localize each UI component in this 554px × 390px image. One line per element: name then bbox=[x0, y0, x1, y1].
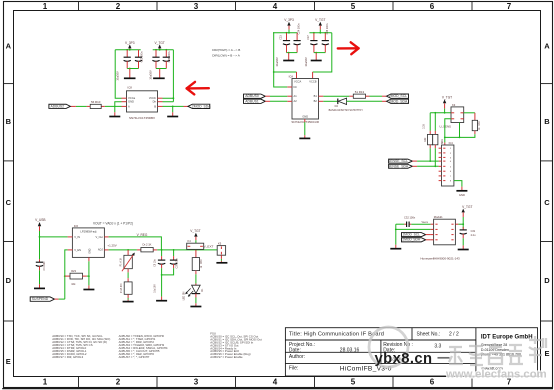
wire rail to connector top bbox=[444, 137, 446, 142]
svg-text:VOUT = VADJ x (1 + P1/P2): VOUT = VADJ x (1 + P1/P2) bbox=[93, 222, 133, 226]
svg-text:C24 100n: C24 100n bbox=[298, 23, 301, 34]
svg-text:SUSPEND: SUSPEND bbox=[32, 297, 49, 301]
svg-text:2: 2 bbox=[116, 378, 121, 387]
svg-text:2.2u: 2.2u bbox=[471, 234, 476, 237]
node B junction bbox=[172, 106, 174, 108]
node right rail VCCb bbox=[173, 97, 175, 99]
svg-text:Title: High Communication IF B: Title: High Communication IF Board bbox=[289, 332, 384, 338]
svg-text:C28 100n: C28 100n bbox=[326, 23, 329, 34]
svg-text:C4 100n: C4 100n bbox=[43, 261, 46, 271]
wire C31 to ground bbox=[462, 238, 464, 245]
ground group 1 bbox=[124, 69, 136, 79]
svg-text:E: E bbox=[6, 357, 11, 366]
pin stubs IC8 right bbox=[158, 98, 163, 106]
wire B1 to R13 bbox=[323, 95, 349, 97]
svg-text:V_TGT: V_TGT bbox=[462, 205, 472, 209]
svg-text:10u/16V: 10u/16V bbox=[276, 57, 279, 67]
svg-text:LP2985M-adj: LP2985M-adj bbox=[80, 230, 96, 234]
wire GND pin to ground bbox=[115, 102, 122, 113]
svg-text:GND: GND bbox=[459, 193, 465, 197]
svg-text:GND: GND bbox=[302, 115, 308, 119]
ground left riser bbox=[390, 245, 401, 249]
svg-text:GND: GND bbox=[128, 100, 134, 104]
wire B2 to D4 bbox=[323, 100, 337, 102]
svg-text:V_IN: V_IN bbox=[74, 235, 80, 239]
svg-text:C: C bbox=[6, 198, 12, 207]
svg-text:D: D bbox=[6, 276, 12, 285]
svg-text:C27: C27 bbox=[307, 35, 310, 40]
wire R13 to 2MOD_SCL bbox=[370, 95, 383, 97]
svg-text:C31: C31 bbox=[471, 230, 476, 233]
ground cap group A bbox=[283, 53, 294, 61]
wire V_USB to V_IN bbox=[40, 236, 68, 238]
net flag 2MOD_SDA module bbox=[402, 238, 431, 242]
net flag 2MOD_SDA bbox=[382, 99, 409, 103]
ground ICA bbox=[299, 135, 310, 138]
capacitor C31 bbox=[460, 227, 476, 238]
svg-text:IC6: IC6 bbox=[74, 224, 79, 228]
potentiometer P1-A bbox=[120, 250, 135, 273]
op-amp ICA box SN74LVC2T45 bbox=[289, 75, 319, 124]
svg-text:C23: C23 bbox=[280, 35, 283, 40]
capacitor C8 bbox=[155, 250, 166, 268]
ground C8 bbox=[156, 297, 167, 301]
frame column ticks bottom bbox=[79, 376, 473, 388]
note DIR text bbox=[212, 48, 240, 57]
pin stubs IC8 left bbox=[122, 98, 127, 106]
connector IC4 bbox=[439, 141, 454, 186]
svg-text:10u/16V: 10u/16V bbox=[305, 57, 308, 67]
resistor R13 bbox=[349, 90, 369, 98]
wire V_EN left and down bbox=[65, 250, 68, 299]
ground B net bbox=[167, 112, 178, 116]
ground IC6 bbox=[83, 285, 94, 289]
power V_3P3 bbox=[125, 41, 135, 50]
wire riser to C4 bbox=[39, 237, 41, 259]
annotation red arrow left bbox=[187, 82, 209, 95]
resistor R34 bbox=[472, 113, 481, 134]
svg-text:DIR(HIGH) = A --> B: DIR(HIGH) = A --> B bbox=[212, 48, 240, 52]
svg-text:V_TGT: V_TGT bbox=[315, 18, 325, 22]
svg-text:2MOD_SDA: 2MOD_SDA bbox=[402, 238, 420, 242]
svg-text:+1.25V: +1.25V bbox=[107, 244, 116, 248]
svg-text:A2: A2 bbox=[294, 99, 298, 103]
svg-text:BAS40-04/SOT23 SCHOTTKY: BAS40-04/SOT23 SCHOTTKY bbox=[329, 109, 364, 112]
svg-text:K4: K4 bbox=[188, 239, 192, 243]
wire ADBUS1 to A2 bbox=[270, 100, 287, 102]
notes column 2 ACBUS pin list bbox=[119, 334, 168, 359]
svg-text:1: 1 bbox=[43, 378, 48, 387]
ground cap group B bbox=[311, 53, 322, 61]
net flag 2MOD_SCL bbox=[382, 94, 409, 98]
ground P1 bbox=[123, 298, 134, 302]
wire V_TGT rail horizontal bbox=[430, 112, 451, 114]
svg-text:SENSE_SDA: SENSE_SDA bbox=[388, 164, 409, 168]
notes column 3 FSU pin list bbox=[210, 332, 262, 360]
svg-text:C35 100n: C35 100n bbox=[177, 258, 179, 269]
wire cap group 1 top bbox=[115, 49, 141, 51]
voltage regulator IC6 LP2985 bbox=[72, 224, 104, 258]
svg-text:10u/16V: 10u/16V bbox=[154, 284, 156, 293]
capacitor C27 bbox=[310, 33, 317, 53]
wire cap group 2 bottom bbox=[156, 68, 166, 70]
wire ADJ to P1 bbox=[109, 249, 137, 251]
ground LED bbox=[190, 303, 201, 306]
svg-text:Date:: Date: bbox=[289, 347, 301, 353]
svg-text:51 R13: 51 R13 bbox=[355, 90, 365, 94]
watermark chinese glyphs bbox=[449, 336, 546, 365]
svg-text:www.elecfans.com: www.elecfans.com bbox=[445, 369, 547, 381]
power V_TGT block2 bbox=[315, 18, 325, 33]
capacitor C25 bbox=[152, 50, 159, 69]
power V_TGT block5 bbox=[462, 205, 473, 229]
wire cap group 1 bottom bbox=[127, 68, 138, 70]
power V_TGT block3 bbox=[190, 229, 200, 243]
watermark elecfans.com bbox=[445, 369, 547, 381]
wire V_Out to rail bbox=[109, 237, 162, 250]
wire K3 bottom drop bbox=[459, 123, 461, 138]
svg-text:P1-B 470: P1-B 470 bbox=[121, 283, 123, 293]
svg-text:6: 6 bbox=[430, 2, 435, 11]
pin stub VCCA top bbox=[296, 72, 298, 79]
wire B junction down bbox=[172, 106, 174, 112]
node group 1 bottom bbox=[129, 68, 131, 70]
svg-text:Modul1: Modul1 bbox=[434, 215, 443, 219]
svg-text:2: 2 bbox=[116, 2, 121, 11]
wire C4 to ground bbox=[39, 270, 41, 284]
notes column 1 ADBUS pin list bbox=[52, 334, 110, 359]
wire ADBUS0 to A1 bbox=[270, 95, 287, 97]
resistor R32 bbox=[424, 131, 433, 148]
wire cap group A bottom bbox=[287, 52, 298, 54]
svg-text:3: 3 bbox=[194, 2, 199, 11]
capacitor C32 bbox=[396, 216, 416, 228]
ground C4 bbox=[34, 284, 45, 288]
svg-text:ACBUS7 = *, *, GPIOH7: ACBUS7 = *, *, GPIOH7 bbox=[119, 355, 150, 359]
ground C31 bbox=[458, 245, 469, 249]
svg-text:C22 100n: C22 100n bbox=[140, 51, 143, 62]
diode D4 BAS40 bbox=[329, 98, 364, 112]
ground connector bbox=[456, 187, 467, 198]
frame row letters right bbox=[544, 42, 550, 359]
wire connector to ground bbox=[454, 181, 462, 187]
svg-text:3.3: 3.3 bbox=[434, 343, 441, 349]
svg-text:VCCA: VCCA bbox=[294, 80, 301, 84]
frame column numbers top bbox=[43, 2, 512, 11]
pin stubs ICA right bbox=[319, 96, 324, 101]
node ADBUS2 stub bbox=[70, 105, 76, 107]
svg-text:V_TGT: V_TGT bbox=[190, 229, 200, 233]
svg-text:D: D bbox=[544, 276, 550, 285]
svg-text:Dir: Dir bbox=[294, 85, 297, 89]
node cap group 1 top junctions bbox=[126, 49, 128, 51]
wire pullup branch 1 bbox=[429, 113, 431, 131]
wire riser to module pin2 bbox=[396, 228, 431, 230]
pin stub VCCB top bbox=[312, 72, 314, 79]
pin stubs ICA left bbox=[287, 87, 292, 101]
svg-text:V_USB: V_USB bbox=[35, 218, 45, 222]
svg-text:C32 100n: C32 100n bbox=[404, 216, 416, 220]
power V_3P3 block2 bbox=[284, 18, 294, 33]
annotation red arrow right bbox=[338, 42, 359, 54]
svg-text:IC4: IC4 bbox=[449, 141, 454, 145]
net flag SUSPEND bbox=[30, 297, 58, 301]
svg-text:5: 5 bbox=[351, 378, 356, 387]
svg-text:SENSE_SCL: SENSE_SCL bbox=[388, 159, 408, 163]
inductor Dr.2 bbox=[137, 243, 157, 252]
svg-text:P1-A 1K: P1-A 1K bbox=[120, 257, 123, 266]
svg-text:B2: B2 bbox=[314, 99, 318, 103]
svg-text:ADBUS7 = RI#, GPIOL3: ADBUS7 = RI#, GPIOL3 bbox=[52, 355, 83, 359]
net flag SENSE_SDA bbox=[388, 164, 417, 168]
svg-text:2.2K: 2.2K bbox=[422, 123, 425, 128]
wire GND pin down bbox=[304, 119, 306, 135]
wire R34 down and bottom rail bbox=[445, 119, 475, 138]
wire left riser bbox=[395, 224, 397, 245]
title block IDT company cell bbox=[481, 334, 533, 370]
wire C8/C35 bottoms join bbox=[162, 268, 174, 296]
svg-text:B: B bbox=[6, 117, 12, 126]
svg-text:LED GN: LED GN bbox=[183, 291, 185, 300]
resistor R23 bbox=[65, 269, 87, 286]
svg-text:ADJ: ADJ bbox=[98, 248, 104, 252]
jumper K5 bbox=[217, 242, 225, 256]
svg-text:ADBUS1: ADBUS1 bbox=[245, 99, 259, 103]
capacitor C26 bbox=[163, 50, 170, 69]
frame column ticks top bbox=[79, 2, 473, 11]
svg-text:3: 3 bbox=[194, 378, 199, 387]
frame row ticks left bbox=[3, 84, 14, 321]
svg-text:ybx8.cn: ybx8.cn bbox=[375, 351, 433, 367]
svg-text:Author:: Author: bbox=[289, 354, 305, 360]
watermark circle logo bbox=[369, 327, 408, 367]
svg-text:K3: K3 bbox=[452, 103, 456, 107]
wire cap group B top bbox=[309, 32, 331, 34]
wire R10 to ADBUS2 bbox=[76, 105, 87, 107]
svg-text:Vsens: Vsens bbox=[422, 222, 429, 224]
svg-text:A: A bbox=[128, 104, 130, 108]
svg-text:B1: B1 bbox=[314, 94, 318, 98]
svg-text:VCCa: VCCa bbox=[128, 96, 136, 100]
svg-text:ACBUS7 = Power Enable: ACBUS7 = Power Enable bbox=[210, 355, 243, 359]
svg-text:File:: File: bbox=[289, 366, 298, 372]
capacitor C35 bbox=[170, 250, 179, 269]
svg-text:R23: R23 bbox=[71, 269, 76, 273]
svg-text:2MOD_SCL: 2MOD_SCL bbox=[389, 94, 407, 98]
net flag ADBUS1 bbox=[244, 99, 271, 103]
capacitor C24 bbox=[294, 33, 301, 53]
wire left rail block2 bbox=[273, 33, 296, 87]
svg-text:A: A bbox=[544, 42, 550, 51]
wire R30 to LED bbox=[195, 274, 197, 283]
wire K5 to ground bbox=[220, 255, 222, 261]
svg-text:A: A bbox=[6, 42, 12, 51]
svg-text:2 / 2: 2 / 2 bbox=[449, 331, 459, 337]
svg-text:ADBUS0: ADBUS0 bbox=[245, 94, 259, 98]
capacitor C21 bbox=[124, 50, 131, 69]
frame row letters left bbox=[6, 42, 12, 367]
net flag ADBUS0 bbox=[244, 94, 271, 98]
svg-text:Dir: Dir bbox=[153, 100, 157, 104]
svg-text:1: 1 bbox=[43, 2, 48, 11]
node cap group 2 junctions bbox=[155, 49, 157, 51]
svg-text:V_REG: V_REG bbox=[137, 233, 148, 237]
svg-text:C: C bbox=[544, 198, 550, 207]
svg-text:4: 4 bbox=[273, 378, 278, 387]
svg-text:R32: R32 bbox=[424, 137, 427, 142]
svg-text:GND: GND bbox=[90, 248, 92, 253]
wire rail Dr.2 to K5 bbox=[157, 249, 217, 251]
ground IC8 left bbox=[109, 112, 120, 116]
svg-text:V_3P3: V_3P3 bbox=[125, 41, 135, 45]
svg-text:R34: R34 bbox=[478, 121, 481, 126]
wire cap group 2 top bbox=[153, 49, 174, 51]
svg-text:C26 100n: C26 100n bbox=[168, 51, 171, 62]
LED D1 bbox=[183, 284, 204, 301]
svg-text:10k: 10k bbox=[71, 282, 76, 286]
wire IC6 GND down bbox=[88, 261, 90, 285]
wire B pin to flag bbox=[163, 105, 184, 107]
pin stubs IC6 bbox=[68, 237, 109, 261]
net flag 2MOD_SCL module bbox=[402, 233, 431, 237]
frame column numbers bottom bbox=[43, 378, 512, 387]
svg-text:10u/16V: 10u/16V bbox=[149, 70, 152, 80]
wire P1-A to P1-B bbox=[127, 272, 129, 278]
wire right rail block2 bbox=[313, 33, 332, 72]
wire SENSE_SCL to connector bbox=[417, 160, 439, 162]
capacitor C22 bbox=[135, 50, 142, 69]
svg-text:7: 7 bbox=[507, 2, 512, 11]
net flag SENSE_SCL bbox=[388, 159, 417, 163]
power V_USB bbox=[35, 218, 45, 237]
svg-text:V_3P3: V_3P3 bbox=[284, 18, 294, 22]
resistor R30 bbox=[192, 250, 203, 274]
svg-text:V_EXT: V_EXT bbox=[204, 245, 214, 249]
capacitor C28 bbox=[322, 33, 329, 53]
svg-text:B: B bbox=[544, 117, 550, 126]
wire D4 to 2MOD_SDA bbox=[347, 100, 382, 102]
svg-text:V_TGT: V_TGT bbox=[442, 95, 452, 99]
svg-text:E: E bbox=[544, 349, 549, 358]
ground K5 bbox=[216, 261, 227, 263]
wire cap group A top bbox=[273, 32, 297, 34]
jumper K4 bbox=[187, 239, 204, 249]
wire left rail to VCCa bbox=[115, 50, 121, 98]
wire K3 right to R34 bbox=[464, 112, 475, 114]
capacitor C23 bbox=[283, 33, 290, 53]
svg-text:6: 6 bbox=[430, 378, 435, 387]
resistor P1-B bbox=[121, 278, 132, 298]
net flag ADBUS2 bbox=[49, 104, 71, 108]
svg-text:V_TGT: V_TGT bbox=[155, 41, 165, 45]
wire SUSPEND to V_EN bbox=[59, 298, 65, 300]
wire R32 to SCL bbox=[429, 148, 431, 161]
svg-text:28.03.16: 28.03.16 bbox=[340, 347, 360, 353]
svg-text:ADBUS2: ADBUS2 bbox=[51, 104, 65, 108]
svg-text:IC8: IC8 bbox=[128, 85, 133, 89]
svg-text:V_EN: V_EN bbox=[74, 248, 81, 252]
svg-text:DIR(LOW) = B --> A: DIR(LOW) = B --> A bbox=[212, 53, 240, 57]
power V_TGT block4 bbox=[442, 95, 452, 112]
svg-text:K5: K5 bbox=[218, 242, 222, 246]
wire LED to ground bbox=[195, 298, 197, 304]
resistor R33 bbox=[433, 131, 438, 148]
svg-text:2MOD_SDA: 2MOD_SDA bbox=[389, 99, 408, 103]
svg-text:V_Out: V_Out bbox=[95, 235, 103, 239]
watermark dash bbox=[438, 357, 450, 359]
svg-text:SN74LVC1T45DBV: SN74LVC1T45DBV bbox=[129, 116, 155, 120]
jumper K3 bbox=[451, 103, 464, 123]
capacitor C4 bbox=[36, 259, 46, 270]
svg-text:4: 4 bbox=[273, 2, 278, 11]
svg-text:10u/16V: 10u/16V bbox=[116, 71, 119, 81]
svg-text:Sheet No.:: Sheet No.: bbox=[417, 331, 441, 337]
resistor R10 bbox=[87, 100, 105, 108]
svg-text:5: 5 bbox=[351, 2, 356, 11]
svg-text:HoneywellHIH9000-9021-143: HoneywellHIH9000-9021-143 bbox=[420, 257, 460, 261]
svg-text:A1: A1 bbox=[294, 94, 298, 98]
module Modul1 box bbox=[431, 215, 456, 245]
wire R23 to GND net bbox=[87, 275, 89, 277]
wire cap group B bottom bbox=[314, 52, 325, 54]
svg-text:Dr.2 1K: Dr.2 1K bbox=[143, 243, 152, 247]
svg-text:VCCB: VCCB bbox=[309, 80, 316, 84]
op-amp IC8 box SN74LVC1T45 bbox=[127, 85, 158, 120]
wire pullup branch 2 bbox=[434, 113, 436, 131]
wire C32 to module pin1 bbox=[411, 223, 430, 225]
wire right rail to VCCb/Dir bbox=[163, 50, 174, 102]
ground group 2 bbox=[153, 69, 165, 79]
wire R33 to SDA bbox=[434, 148, 436, 166]
title block frame bbox=[285, 328, 537, 376]
svg-text:ICA: ICA bbox=[289, 75, 294, 79]
svg-text:56 R10: 56 R10 bbox=[91, 100, 101, 104]
svg-text:R30: R30 bbox=[201, 259, 203, 264]
svg-text:VCCb: VCCb bbox=[149, 96, 157, 100]
svg-text:C8 10u: C8 10u bbox=[155, 259, 157, 267]
wire A pin to R10 bbox=[105, 105, 122, 107]
net flag 2MOD_SDA block1 bbox=[184, 104, 212, 108]
svg-text:2MOD_SCL: 2MOD_SCL bbox=[403, 233, 420, 237]
power V_TGT bbox=[155, 41, 165, 50]
pin stub connector top bbox=[444, 143, 446, 145]
svg-text:MD1: MD1 bbox=[442, 138, 444, 144]
wire SENSE_SDA to connector bbox=[417, 165, 439, 167]
svg-text:B: B bbox=[154, 104, 156, 108]
frame row ticks right bbox=[541, 84, 553, 321]
title block text bbox=[289, 331, 459, 372]
svg-text:2MOD_SDA: 2MOD_SDA bbox=[192, 104, 211, 108]
wire module right pin to V_TGT rail bbox=[455, 223, 463, 225]
svg-text:IDT Europe GmbH: IDT Europe GmbH bbox=[481, 334, 533, 340]
